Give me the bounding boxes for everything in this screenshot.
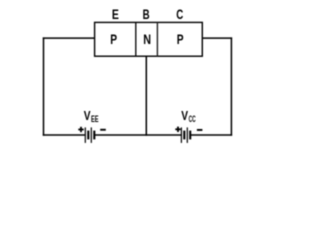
svg-text:P: P: [177, 31, 184, 47]
svg-text:B: B: [143, 6, 150, 22]
svg-text:CC: CC: [189, 114, 196, 124]
svg-text:P: P: [110, 31, 117, 47]
wire right vertical: [230, 37, 232, 135]
emitter-base junction divider: [135, 22, 137, 56]
transistor body rectangle (PNP block): [95, 22, 203, 56]
battery VEE: [85, 127, 94, 142]
battery VCC plus sign: [175, 127, 180, 132]
base-collector junction divider: [156, 22, 158, 56]
wire bottom right segment: [190, 134, 232, 136]
battery VEE plus sign: [78, 127, 83, 132]
svg-text:E: E: [112, 6, 119, 22]
wire emitter lead: [43, 37, 95, 39]
wire bottom left segment: [43, 134, 86, 136]
wire left vertical: [43, 37, 45, 135]
svg-text:N: N: [143, 31, 151, 47]
wire bottom middle segment: [95, 134, 182, 136]
wire base lead (center vertical): [145, 56, 147, 136]
battery VCC: [181, 127, 190, 142]
svg-text:EE: EE: [91, 114, 99, 124]
svg-text:V: V: [181, 109, 188, 123]
battery VEE minus sign: [100, 129, 106, 131]
wire collector lead: [202, 37, 232, 39]
svg-text:C: C: [176, 6, 183, 22]
battery VCC minus sign: [197, 129, 203, 131]
